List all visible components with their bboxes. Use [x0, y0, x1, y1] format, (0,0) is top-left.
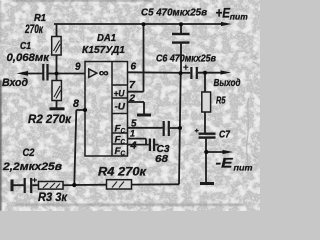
svg-text:С6 470мкх25в: С6 470мкх25в: [156, 53, 217, 65]
svg-text:пит: пит: [234, 163, 253, 173]
svg-text:Вход: Вход: [2, 77, 28, 89]
svg-text:Выход: Выход: [214, 77, 241, 89]
svg-text:9: 9: [75, 61, 81, 73]
svg-text:-U: -U: [115, 102, 127, 113]
svg-text:С5 470мкх25в: С5 470мкх25в: [141, 7, 208, 19]
svg-text:пит: пит: [230, 12, 248, 22]
svg-text:R3 3к: R3 3к: [38, 192, 68, 204]
svg-text:7: 7: [129, 80, 135, 91]
svg-text:R2 270к: R2 270к: [28, 114, 72, 126]
svg-text:DA1: DA1: [97, 33, 116, 44]
svg-text:+Е: +Е: [216, 6, 231, 21]
svg-text:∞: ∞: [99, 68, 109, 80]
svg-text:6: 6: [131, 62, 137, 73]
svg-text:1: 1: [130, 129, 135, 140]
svg-text:+U: +U: [114, 89, 126, 100]
svg-text:-Е: -Е: [216, 156, 234, 171]
svg-text:С7: С7: [219, 129, 231, 141]
svg-text:270к: 270к: [24, 22, 43, 36]
svg-text:4: 4: [129, 141, 137, 152]
svg-text:К157УД1: К157УД1: [82, 44, 125, 56]
svg-text:0,068мк: 0,068мк: [7, 52, 51, 64]
svg-text:R5: R5: [216, 96, 226, 107]
svg-text:68: 68: [155, 153, 168, 165]
svg-text:R4 270к: R4 270к: [98, 165, 147, 179]
svg-text:С2: С2: [23, 147, 35, 159]
svg-text:2: 2: [128, 93, 135, 103]
svg-text:8: 8: [73, 98, 80, 110]
svg-text:2,2мкх25в: 2,2мкх25в: [2, 161, 62, 173]
svg-text:С1: С1: [20, 41, 31, 52]
